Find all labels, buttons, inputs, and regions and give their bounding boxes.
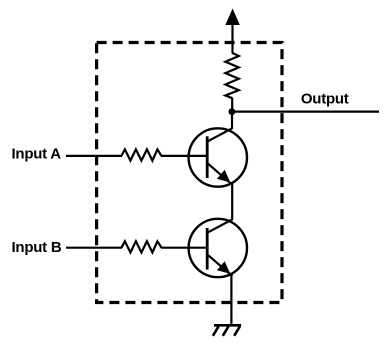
transistor Q2 (189, 219, 247, 277)
resistor R1 (pull-up) (225, 53, 238, 98)
ground (213, 325, 241, 336)
node output junction (229, 108, 236, 115)
wire Q1 collector to node (231, 112, 233, 129)
dashed enclosure box (97, 43, 282, 303)
wire R2 to Q1 base (161, 155, 207, 157)
resistor R3 (input B) (121, 241, 161, 252)
transistor Q1 (189, 128, 247, 187)
wire Input B to R3 (66, 247, 122, 249)
wire Q1 emitter to Q2 collector (231, 184, 233, 220)
power supply arrow (Vcc) (225, 9, 240, 54)
svg-text:Input B: Input B (12, 239, 62, 256)
wire R3 to Q2 base (161, 247, 207, 249)
resistor R2 (input A) (121, 149, 161, 160)
wire Input A to R2 (66, 155, 122, 157)
wire Q2 emitter to ground (230, 275, 232, 325)
svg-text:Output: Output (301, 90, 349, 107)
svg-text:Input A: Input A (12, 146, 62, 163)
wire output (232, 110, 379, 112)
wire R1 to output node (231, 98, 233, 112)
